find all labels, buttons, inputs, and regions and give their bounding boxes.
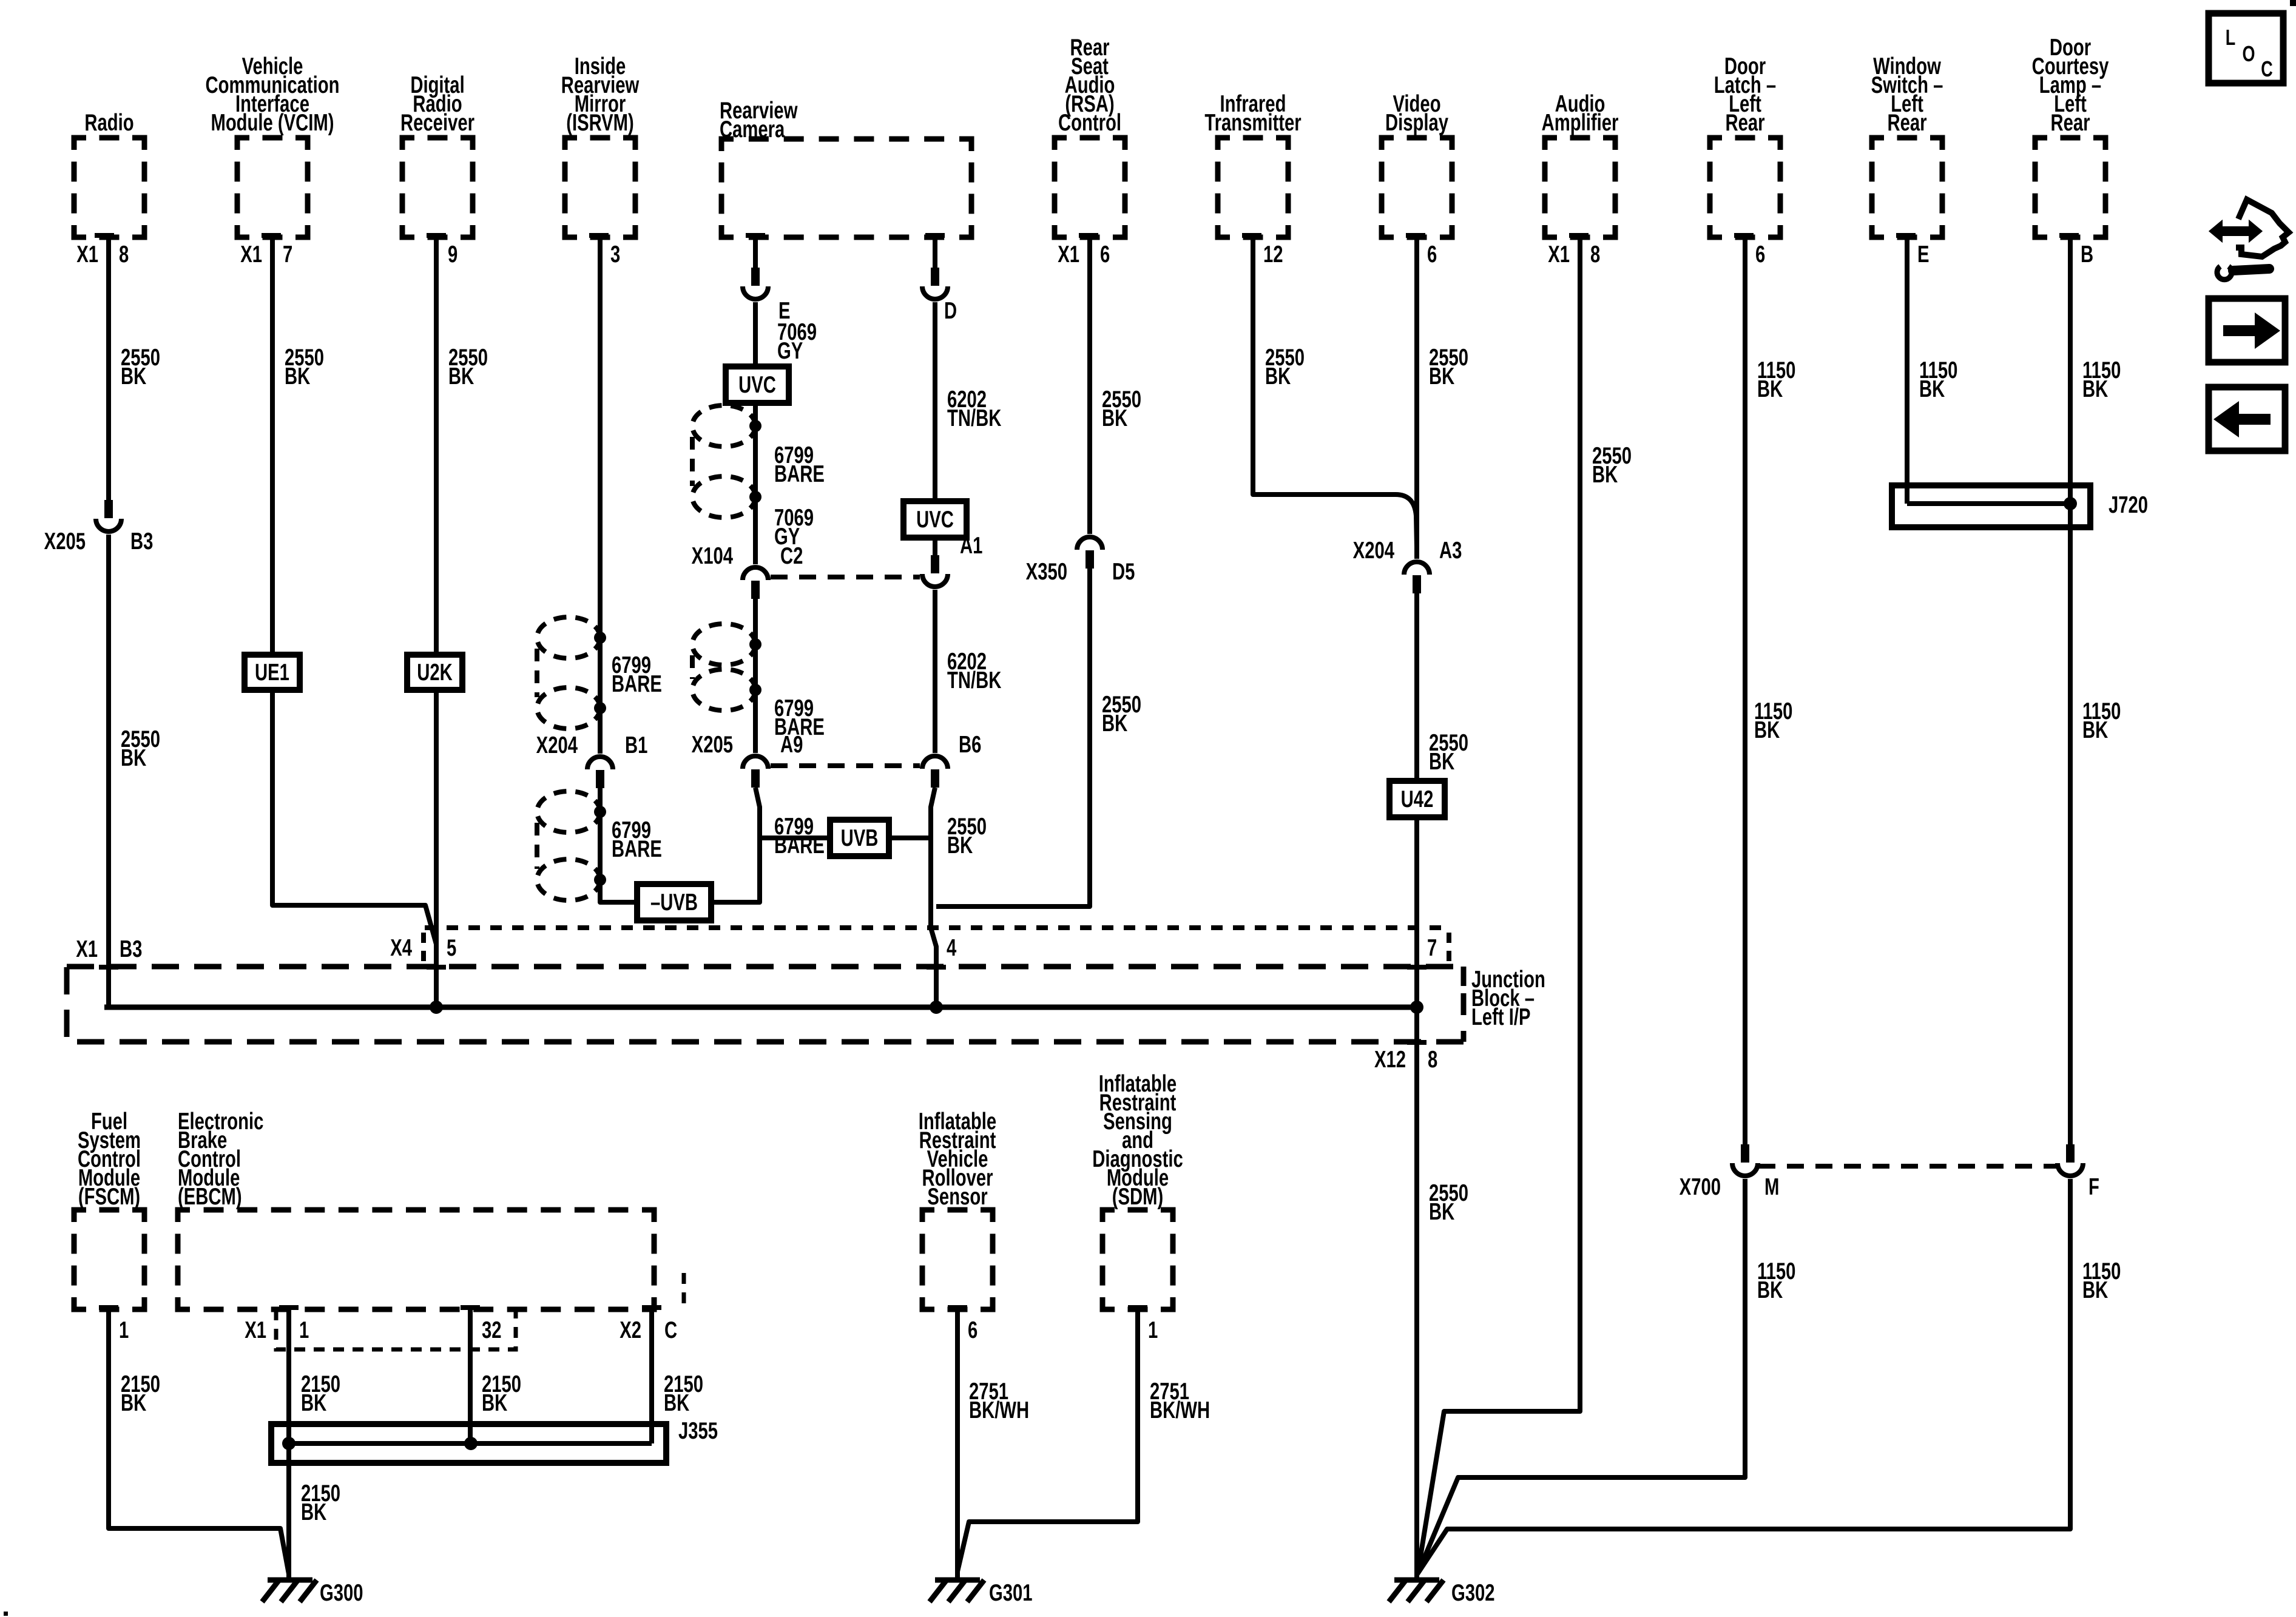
- svg-text:B: B: [2081, 241, 2093, 268]
- label Door Latch Left Rear: [1714, 53, 1776, 136]
- component RSA Control: [1055, 138, 1125, 237]
- sensor pin tab: [948, 1305, 967, 1310]
- wire label 2550 BK (VD mid): [1429, 730, 1468, 775]
- svg-text:(ISRVM): (ISRVM): [566, 110, 634, 136]
- svg-text:BARE: BARE: [612, 671, 662, 697]
- EBCM X2 boundary dash: [682, 1273, 686, 1309]
- svg-text:J720: J720: [2109, 492, 2148, 518]
- svg-text:X204: X204: [1353, 538, 1394, 564]
- label Audio Amplifier: [1542, 91, 1619, 136]
- shield loops camera E upper: [692, 405, 761, 518]
- wire 6799 BARE A9 to -UVB: [711, 788, 760, 902]
- wire IR 2550 BK: [1253, 237, 1417, 547]
- svg-text:BARE: BARE: [612, 836, 662, 862]
- wire label 2150 BK (EBCM 32): [482, 1371, 521, 1416]
- connector X205 B3: [96, 500, 121, 532]
- svg-text:BK: BK: [1919, 376, 1945, 402]
- WS pin tab: [1896, 233, 1916, 238]
- connector B6: [922, 756, 948, 788]
- wire FSCM 2150 BK: [109, 1309, 289, 1574]
- svg-text:C: C: [2261, 56, 2273, 81]
- connector A1: [922, 555, 948, 587]
- component Audio Amplifier: [1545, 138, 1615, 237]
- wire U42 to junction: [1414, 817, 1419, 1007]
- svg-text:X12: X12: [1374, 1047, 1406, 1073]
- svg-text:BK: BK: [664, 1390, 689, 1416]
- wire 7069 GY camera E: [753, 302, 758, 564]
- svg-text:D5: D5: [1112, 559, 1135, 585]
- svg-text:X1: X1: [240, 241, 262, 268]
- svg-text:(FSCM): (FSCM): [78, 1184, 140, 1210]
- DL pin tab: [1734, 233, 1754, 238]
- svg-text:GY: GY: [777, 338, 803, 364]
- wire 2550 BK to U42: [1414, 593, 1419, 781]
- junction dot DRR-bus: [430, 1001, 443, 1014]
- dashed connector line M-F: [1758, 1164, 2057, 1169]
- svg-text:X1: X1: [76, 241, 98, 268]
- svg-text:Sensor: Sensor: [927, 1184, 987, 1210]
- label Junction Block - Left I/P: [1471, 967, 1545, 1030]
- svg-text:Control: Control: [1058, 110, 1121, 136]
- svg-text:8: 8: [119, 241, 129, 268]
- svg-text:X700: X700: [1680, 1174, 1721, 1200]
- svg-text:UE1: UE1: [255, 660, 289, 686]
- svg-text:BK: BK: [1102, 711, 1127, 737]
- svg-text:7: 7: [283, 241, 292, 268]
- wire VD 2550 BK to G302: [1414, 1007, 1419, 1578]
- wire inside J355: [288, 1441, 652, 1446]
- junction block internal bus wire: [104, 1005, 1417, 1010]
- svg-text:TN/BK: TN/BK: [947, 405, 1001, 431]
- wire label 1150 BK (DL lower): [1757, 1258, 1795, 1303]
- label EBCM: [178, 1109, 263, 1210]
- component EBCM: [178, 1210, 654, 1309]
- svg-text:6: 6: [1100, 241, 1110, 268]
- svg-text:M: M: [1764, 1174, 1779, 1200]
- wire label 2150 BK (FSCM): [121, 1371, 160, 1416]
- shield loops camera E lower: [692, 624, 761, 711]
- DRR pin tab: [427, 233, 446, 238]
- component FSCM: [74, 1210, 144, 1309]
- svg-text:BK: BK: [1754, 717, 1780, 743]
- wire label 2550 BK (RSA upper): [1102, 387, 1141, 431]
- junction tab 5: [427, 965, 446, 970]
- wire RSA 2550 BK lower: [936, 569, 1090, 906]
- splice box -UVB: [637, 884, 711, 920]
- wire label 2550 BK (B6): [947, 814, 987, 859]
- splice box UVC (E): [726, 366, 789, 403]
- connector X104 C2: [743, 567, 768, 599]
- camera pin D tab: [925, 233, 945, 238]
- wire label 7069 GY (E lower): [774, 505, 814, 550]
- wire SDM 2751 BK/WH: [957, 1309, 1138, 1571]
- wire sensor 2751 BK/WH: [955, 1309, 960, 1580]
- svg-text:C: C: [664, 1317, 677, 1343]
- label Door Courtesy Lamp Left Rear: [2032, 35, 2109, 136]
- svg-text:BK: BK: [1429, 1199, 1454, 1225]
- wire label 6799 BARE (ISRVM lower): [612, 817, 662, 862]
- wire label 1150 BK (DCL upper): [2082, 357, 2121, 402]
- svg-text:X2: X2: [620, 1317, 641, 1343]
- wire label 6202 TN/BK (lower): [947, 649, 1001, 694]
- svg-text:BK: BK: [2082, 1277, 2108, 1303]
- wire label 2751 BK/WH (SDM): [1150, 1379, 1210, 1423]
- label Digital Radio Receiver: [400, 72, 474, 136]
- junction dot pin4-bus: [930, 1001, 943, 1014]
- diagnostic tool icon (arrows, outline, wrench): [2210, 200, 2289, 280]
- svg-text:X205: X205: [44, 528, 86, 555]
- svg-text:Receiver: Receiver: [400, 110, 474, 136]
- option box U42: [1389, 781, 1445, 817]
- option box U2K: [407, 655, 462, 690]
- wire 6202 TN/BK lower: [933, 590, 937, 753]
- svg-text:A1: A1: [960, 533, 982, 559]
- wire EBCM pin1 2150 BK: [286, 1309, 291, 1580]
- left arrow box icon: [2209, 387, 2285, 451]
- connector X205 A9: [743, 756, 768, 788]
- svg-text:9: 9: [448, 241, 458, 268]
- svg-text:X4: X4: [390, 935, 412, 961]
- wire to junction pin 4: [931, 838, 936, 1007]
- label Infrared Transmitter: [1204, 91, 1301, 136]
- svg-text:BK: BK: [301, 1499, 326, 1525]
- svg-text:8: 8: [1428, 1047, 1437, 1073]
- wire Radio 2550 BK upper: [106, 237, 111, 500]
- svg-text:32: 32: [482, 1317, 502, 1343]
- label RSA Control: [1058, 35, 1121, 136]
- bus left end: [104, 1005, 109, 1010]
- svg-text:12: 12: [1263, 241, 1283, 268]
- component Rearview Camera: [721, 139, 971, 237]
- svg-text:Module (VCIM): Module (VCIM): [211, 110, 334, 136]
- svg-text:1: 1: [119, 1317, 129, 1343]
- svg-text:8: 8: [1590, 241, 1600, 268]
- svg-text:BK: BK: [121, 1390, 146, 1416]
- svg-text:X1: X1: [76, 936, 98, 962]
- svg-text:6: 6: [1755, 241, 1765, 268]
- label Video Display: [1385, 91, 1448, 136]
- svg-text:BK: BK: [947, 832, 973, 859]
- svg-text:X350: X350: [1026, 559, 1067, 585]
- svg-text:X1: X1: [245, 1317, 266, 1343]
- ground G301: [930, 1580, 1033, 1606]
- svg-text:BARE: BARE: [774, 461, 825, 487]
- svg-text:6: 6: [968, 1317, 977, 1343]
- svg-text:BK: BK: [2082, 717, 2108, 743]
- connector X204 B1: [587, 757, 613, 788]
- splice J720: [1892, 485, 2090, 527]
- svg-text:L: L: [2226, 25, 2235, 50]
- junction block - left I/P dashed outline: [67, 967, 1464, 1042]
- svg-text:BK: BK: [301, 1390, 326, 1416]
- wire label 2550 BK (IR): [1265, 345, 1305, 390]
- wire 6202 TN/BK upper: [933, 302, 937, 559]
- svg-text:Left I/P: Left I/P: [1471, 1004, 1531, 1030]
- X4 boundary dash: [421, 933, 426, 962]
- wire inside J720: [1907, 501, 2070, 506]
- svg-text:TN/BK: TN/BK: [947, 667, 1001, 694]
- wire label 2550 BK (VD lower): [1429, 1180, 1468, 1225]
- wire label 7069 GY (E upper): [777, 319, 817, 364]
- svg-text:BK: BK: [2082, 376, 2108, 402]
- wire stub UVB right: [889, 836, 931, 840]
- wire label 2550 BK (RSA lower): [1102, 692, 1141, 737]
- wire label 1150 BK (DL mid): [1754, 698, 1792, 743]
- connector X350 D5: [1077, 537, 1102, 569]
- wire label 2150 BK (EBCM 1): [301, 1371, 340, 1416]
- svg-text:O: O: [2243, 41, 2255, 66]
- AA pin tab: [1569, 233, 1589, 238]
- svg-text:X205: X205: [692, 732, 733, 758]
- svg-text:BK: BK: [1592, 462, 1618, 488]
- EBCM pin 1 tab: [279, 1305, 299, 1310]
- junction tab B3: [99, 965, 118, 970]
- wire label 2550 BK (DRR): [448, 345, 488, 390]
- ground G300: [262, 1580, 363, 1606]
- right arrow box icon: [2209, 299, 2285, 362]
- junction dot J355 pin1: [282, 1437, 295, 1450]
- svg-text:UVC: UVC: [738, 372, 776, 398]
- wire 2550 BK below B6: [931, 788, 935, 838]
- label Window Switch Left Rear: [1871, 53, 1943, 136]
- svg-text:7: 7: [1427, 935, 1437, 961]
- svg-text:U2K: U2K: [417, 660, 453, 686]
- svg-text:Rear: Rear: [1887, 110, 1926, 136]
- wire label 2550 BK (VD upper): [1429, 345, 1468, 390]
- wire VD 2550 BK upper: [1414, 237, 1419, 559]
- option box UE1: [245, 655, 300, 690]
- svg-text:BK: BK: [1429, 749, 1454, 775]
- svg-text:X104: X104: [692, 543, 733, 569]
- svg-text:G301: G301: [989, 1580, 1033, 1606]
- component Digital Radio Receiver: [402, 138, 473, 237]
- wire ISRVM shield upper: [598, 237, 603, 754]
- RSA pin tab: [1079, 233, 1098, 238]
- svg-text:J355: J355: [678, 1418, 718, 1444]
- svg-text:6: 6: [1427, 241, 1437, 268]
- splice J355: [271, 1424, 666, 1463]
- wire camera D stub: [933, 237, 937, 269]
- svg-text:BK: BK: [121, 745, 146, 771]
- connector X204 A3: [1404, 562, 1430, 593]
- svg-text:E: E: [1917, 241, 1930, 268]
- wire label 1150 BK (DCL mid): [2082, 698, 2121, 743]
- shield loops ISRVM upper: [537, 617, 606, 729]
- svg-text:1: 1: [1148, 1317, 1158, 1343]
- wire VCIM 2550 BK: [272, 237, 436, 944]
- svg-text:U42: U42: [1401, 786, 1434, 812]
- component Rollover Sensor: [922, 1210, 993, 1309]
- wire label 2150 BK (EBCM C): [664, 1371, 703, 1416]
- svg-text:(EBCM): (EBCM): [178, 1184, 242, 1210]
- component SDM: [1102, 1210, 1173, 1309]
- connector camera pin E: [743, 268, 768, 299]
- wire DCL 1150 BK to G302: [1417, 1179, 2070, 1574]
- wire camera E stub: [753, 237, 758, 269]
- svg-text:BK: BK: [285, 363, 310, 390]
- svg-text:3: 3: [610, 241, 620, 268]
- junction dot J355 pin32: [464, 1437, 478, 1450]
- camera pin E tab: [746, 233, 765, 238]
- wire RSA 2550 BK upper: [1087, 237, 1092, 534]
- svg-text:BK/WH: BK/WH: [1150, 1397, 1210, 1423]
- svg-text:UVB: UVB: [841, 825, 879, 851]
- component Door Courtesy Lamp - Left Rear: [2035, 138, 2105, 237]
- wire label 6799 BARE (ISRVM upper): [612, 652, 662, 697]
- svg-text:C2: C2: [780, 543, 803, 569]
- svg-text:Rear: Rear: [2050, 110, 2090, 136]
- svg-text:X1: X1: [1058, 241, 1079, 268]
- wire label 2751 BK/WH (sensor): [969, 1379, 1029, 1423]
- svg-text:B6: B6: [959, 732, 981, 758]
- wire label 1150 BK (DL upper): [1757, 357, 1795, 402]
- ground G302: [1389, 1580, 1495, 1606]
- wire label 6799 BARE (camera upper): [774, 442, 825, 487]
- label FSCM: [78, 1109, 141, 1210]
- svg-text:BK/WH: BK/WH: [969, 1397, 1029, 1423]
- svg-text:(SDM): (SDM): [1112, 1184, 1163, 1210]
- component Window Switch - Left Rear: [1872, 138, 1942, 237]
- page corner mark: [2290, 0, 2296, 6]
- junction tab 7: [1407, 965, 1427, 970]
- svg-text:Rear: Rear: [1725, 110, 1764, 136]
- junction dot pin7-bus: [1410, 1001, 1423, 1014]
- splice box UVB: [830, 820, 889, 856]
- svg-text:BK: BK: [482, 1390, 507, 1416]
- svg-text:B3: B3: [120, 936, 142, 962]
- wire label 1150 BK (DCL lower): [2082, 1258, 2121, 1303]
- svg-text:Amplifier: Amplifier: [1542, 110, 1619, 136]
- svg-text:5: 5: [447, 935, 456, 961]
- VCIM pin tab: [262, 233, 281, 238]
- junction tab 4: [927, 965, 946, 970]
- svg-text:BK: BK: [1102, 405, 1127, 431]
- wire ISRVM shield lower: [600, 788, 637, 902]
- svg-text:BK: BK: [1757, 376, 1783, 402]
- wire label 2150 BK (below J355): [301, 1480, 340, 1525]
- wire DCL 1150 BK upper: [2068, 237, 2073, 1146]
- label VCIM: [206, 53, 340, 136]
- label ISRVM: [561, 53, 640, 136]
- svg-text:BK: BK: [121, 363, 146, 390]
- svg-text:BK: BK: [1265, 363, 1291, 390]
- wire stub to UVB: [760, 836, 830, 840]
- component Infrared Transmitter: [1218, 138, 1288, 237]
- svg-text:D: D: [944, 298, 957, 324]
- wire label 6799 BARE (camera lower): [774, 695, 825, 740]
- splice box UVC (D): [903, 501, 967, 538]
- wire EBCM pinC 2150 BK: [649, 1309, 654, 1443]
- connector X700 F: [2058, 1144, 2083, 1176]
- wire label 2550 BK (AA): [1592, 443, 1632, 488]
- svg-text:Display: Display: [1385, 110, 1448, 136]
- svg-text:X204: X204: [536, 732, 578, 758]
- wire label 2550 BK (Radio upper): [121, 345, 160, 390]
- pin 7 boundary dash: [1447, 933, 1451, 962]
- component Door Latch - Left Rear: [1710, 138, 1780, 237]
- svg-text:X1: X1: [1548, 241, 1570, 268]
- label Inflatable Restraint Vehicle Rollover Sensor: [919, 1109, 996, 1210]
- component Radio: [74, 138, 144, 237]
- wire label 6799 BARE (A9): [774, 814, 825, 859]
- svg-text:B1: B1: [625, 732, 647, 758]
- junction dot J720: [2064, 497, 2077, 510]
- svg-text:Transmitter: Transmitter: [1204, 110, 1301, 136]
- svg-text:BK: BK: [448, 363, 474, 390]
- svg-text:F: F: [2088, 1174, 2099, 1200]
- svg-text:4: 4: [947, 935, 956, 961]
- component VCIM: [237, 138, 308, 237]
- component Video Display: [1382, 138, 1452, 237]
- svg-text:Radio: Radio: [84, 110, 133, 136]
- dashed connector line A9-B6: [771, 763, 920, 768]
- svg-text:A9: A9: [780, 732, 803, 758]
- svg-text:A3: A3: [1439, 538, 1462, 564]
- svg-text:–UVB: –UVB: [650, 890, 698, 916]
- svg-text:1: 1: [299, 1317, 309, 1343]
- svg-text:B3: B3: [130, 528, 153, 555]
- LOC box icon: [2209, 13, 2283, 83]
- junction block X4 dotted boundary line: [425, 925, 1449, 930]
- EBCM X1 connector dashed notch: [276, 1309, 516, 1349]
- wire EBCM pin32 2150 BK: [468, 1309, 473, 1443]
- wire label 2550 BK (Radio lower): [121, 726, 160, 771]
- connector X700 M: [1732, 1144, 1758, 1176]
- label Radio: [84, 110, 133, 136]
- svg-text:BK: BK: [1757, 1277, 1783, 1303]
- wire label 2550 BK (VCIM): [285, 345, 324, 390]
- connector camera pin D: [922, 268, 948, 299]
- IR pin tab: [1242, 233, 1261, 238]
- svg-text:G302: G302: [1451, 1580, 1495, 1606]
- dashed connector line C2-A1: [771, 575, 920, 579]
- wire Radio 2550 BK lower: [106, 535, 111, 1007]
- EBCM pin C tab: [642, 1305, 661, 1310]
- VD pin tab: [1406, 233, 1425, 238]
- FSCM pin tab: [99, 1305, 118, 1310]
- label SDM: [1092, 1071, 1183, 1210]
- wire label 1150 BK (WS): [1919, 357, 1957, 402]
- wire WS 1150 BK: [1905, 237, 1909, 504]
- SDM pin tab: [1128, 1305, 1147, 1310]
- DCL pin tab: [2059, 233, 2079, 238]
- wire DL 1150 BK to G302: [1418, 1179, 1745, 1573]
- label Rearview Camera: [720, 98, 798, 143]
- wire label 6202 TN/BK (upper): [947, 387, 1001, 431]
- svg-text:BK: BK: [1429, 363, 1454, 390]
- wire 7069 GY below C2: [753, 599, 758, 753]
- junction tab X12-8: [1407, 1040, 1427, 1045]
- Radio pin tab: [95, 233, 114, 238]
- wire DL 1150 BK upper: [1743, 237, 1747, 1147]
- wire AA 2550 BK to G302: [1418, 237, 1580, 1571]
- ISRVM pin tab: [589, 233, 609, 238]
- component ISRVM: [565, 138, 635, 237]
- wire DRR 2550 BK: [434, 237, 439, 1007]
- EBCM pin 32 tab: [461, 1305, 480, 1310]
- shield loops ISRVM lower: [537, 791, 606, 900]
- svg-text:G300: G300: [320, 1580, 363, 1606]
- svg-text:UVC: UVC: [916, 507, 954, 533]
